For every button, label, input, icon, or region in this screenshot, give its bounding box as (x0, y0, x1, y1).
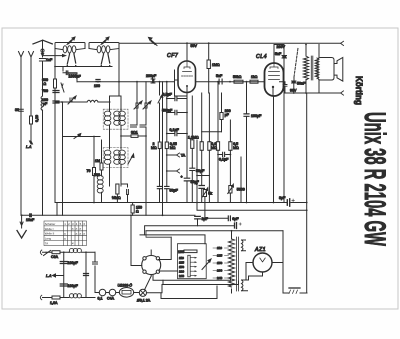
capacitor 100muF c (60, 262, 67, 264)
lever on x159.5 (158, 94, 163, 103)
resistor on x209.4 (208, 142, 211, 151)
switch contacts L2 (103, 53, 104, 54)
line x241 (240, 157, 242, 203)
wire x110 top (110, 95, 121, 97)
svg-text:pF: pF (43, 102, 48, 106)
capacitor 5nF a (219, 79, 222, 84)
svg-text:1kΩ: 1kΩ (251, 75, 258, 79)
tap box (178, 244, 207, 279)
CF7 internals (183, 62, 192, 72)
coil on antenna line (41, 96, 43, 215)
resistor 1M on left line (100, 163, 103, 170)
svg-text:200pF: 200pF (146, 74, 157, 78)
svg-text:100µF: 100µF (251, 114, 262, 118)
transformer primary (229, 239, 235, 287)
svg-text:C3A: C3A (51, 255, 59, 259)
selector wire to pilot lamp (145, 276, 152, 290)
svg-text:CF7: CF7 (167, 53, 179, 59)
CF7 grid side wire (175, 70, 187, 96)
voltage selector plate (142, 256, 161, 275)
resistor 0,15M (165, 142, 168, 149)
svg-text:8µF: 8µF (202, 217, 209, 221)
switch S1 on top bus (149, 37, 158, 45)
capacitor 5nF b (282, 56, 287, 59)
wire x62.5 down (62, 102, 64, 215)
svg-text:Welle II: Welle II (45, 232, 55, 236)
svg-text:×: × (75, 231, 78, 236)
resistor 1/2M (116, 184, 119, 194)
svg-text:50kΩ: 50kΩ (233, 75, 242, 79)
resistor 70 on x94 (93, 137, 95, 203)
switch contacts L1 (69, 53, 70, 54)
line x218 (217, 82, 219, 203)
svg-text:100: 100 (178, 250, 184, 254)
capacitor 0,1muF out (283, 85, 287, 94)
CL4 internals (269, 63, 280, 80)
capacitor pair 50muF (157, 186, 169, 188)
ground arrow (20, 215, 23, 228)
svg-text:MΩ: MΩ (170, 146, 176, 150)
heater rail 1 (145, 226, 234, 235)
svg-text:50V: 50V (191, 44, 198, 48)
resistor 0,5M (229, 142, 232, 151)
taps (225, 248, 229, 278)
resistor 150 (131, 205, 134, 213)
svg-text:½MΩ: ½MΩ (112, 196, 121, 200)
svg-text:1MΩ: 1MΩ (212, 63, 220, 67)
wire band switch (43, 55, 66, 57)
svg-text:240: 240 (179, 274, 184, 278)
svg-text:1000pF: 1000pF (69, 75, 82, 79)
screen line x159.5 (159, 82, 161, 203)
selector switch arrow (202, 259, 211, 270)
coil bottom b (69, 294, 81, 298)
coil 500 (97, 175, 103, 193)
antenna A2 (29, 52, 34, 139)
vertical x95 (94, 252, 96, 292)
electrolytic 8muF (287, 199, 289, 206)
lamp row wire (95, 292, 99, 294)
heater rail 3 (140, 235, 205, 244)
switch dashed lever (294, 48, 298, 77)
wire row y102 (55, 101, 87, 103)
svg-text:1M: 1M (95, 159, 100, 163)
TA connectors (167, 153, 180, 173)
svg-text:0,1µF: 0,1µF (170, 128, 180, 132)
capacitor 0,5muF link (167, 98, 187, 100)
bus y215 ground (21, 214, 195, 216)
selector feed wire left (131, 215, 142, 265)
svg-text:Lang: Lang (45, 237, 52, 241)
svg-text:125: 125 (217, 254, 222, 258)
svg-text:+: + (196, 182, 198, 186)
svg-text:Körting: Körting (353, 76, 364, 105)
capacitor 10nF (127, 190, 129, 195)
capacitor 10nF on ground bus (29, 213, 32, 217)
heater bottom rails (153, 275, 231, 280)
svg-text:×: × (72, 226, 75, 231)
svg-text:6µF: 6µF (232, 217, 239, 221)
wire top bus (119, 42, 341, 44)
coil box L2 (89, 43, 119, 49)
trimmer pair (134, 101, 142, 109)
OT winding (315, 58, 319, 79)
trimmer arrow L1 (67, 37, 75, 45)
wire box sides down (55, 49, 119, 97)
svg-text:U1333-Ö: U1333-Ö (118, 284, 133, 288)
resistor 0,1M (216, 142, 219, 151)
switch S2 (61, 83, 64, 92)
transformer core (237, 237, 239, 291)
speaker cone (334, 58, 343, 82)
svg-text:AZ1: AZ1 (254, 247, 266, 253)
antenna A3 large (33, 40, 52, 44)
fuse 1,6A (52, 296, 60, 299)
svg-text:150: 150 (179, 265, 184, 269)
capacitor 100muF d (60, 284, 67, 286)
capacitor 8muF b (195, 216, 201, 219)
svg-text:10nF: 10nF (26, 218, 35, 222)
capacitor 200pF (151, 79, 155, 83)
link y175.5 (197, 175, 209, 177)
mains plug connectors (40, 250, 42, 300)
line x221.5 resistor 200 (221, 93, 223, 132)
table (44, 221, 87, 246)
vertical x307 long (306, 93, 308, 293)
line x209.4 lower (208, 93, 210, 203)
svg-text:TA: TA (45, 242, 49, 246)
caps at bottom of IF (131, 125, 147, 127)
heater rail 2 (146, 230, 283, 232)
wire y81 mid (196, 81, 265, 83)
speaker field coil (304, 45, 309, 94)
capacitor 50nF (292, 81, 297, 83)
transformer secondary top (242, 240, 246, 251)
svg-text:Schalter: Schalter (45, 222, 56, 226)
svg-text:L.A: L.A (46, 274, 52, 278)
svg-text:5k: 5k (208, 192, 212, 196)
svg-text:200: 200 (217, 269, 222, 273)
transformer secondary bottom (242, 280, 248, 291)
line x246.5 capacitor 100muF (246, 82, 248, 202)
resistor 1M right of CF7 (207, 60, 210, 69)
svg-text:0,1µF: 0,1µF (219, 158, 229, 162)
svg-text:Ω: Ω (136, 210, 139, 214)
svg-text:Unix 38 R 2104 GW: Unix 38 R 2104 GW (358, 112, 391, 246)
capacitor 0,1muF link (167, 133, 187, 135)
svg-text:×: × (79, 231, 82, 236)
svg-text:C4A: C4A (107, 297, 115, 301)
IF transformer T2 (104, 150, 125, 164)
coil box L1 (55, 43, 85, 49)
svg-text:150: 150 (217, 261, 222, 265)
coil bottom a (69, 249, 81, 253)
node L.A arrow (30, 138, 33, 144)
wire x56 down (54, 102, 56, 202)
connector top right (341, 41, 344, 45)
capacitor 500pF link (167, 112, 187, 114)
capacitor 1nF (40, 59, 46, 62)
bus 2 y210 (197, 203, 307, 211)
svg-text:0,1: 0,1 (98, 297, 103, 301)
svg-text:Ø0,1 2A: Ø0,1 2A (137, 299, 151, 303)
line x197 (196, 140, 198, 203)
svg-text:240: 240 (217, 276, 222, 280)
line x166.8 TA feed (166, 82, 168, 203)
ground main (283, 292, 289, 294)
svg-text:220: 220 (179, 269, 184, 273)
shield can T1 (103, 109, 128, 129)
svg-text:1,2MΩ: 1,2MΩ (188, 136, 199, 140)
svg-text:100µF: 100µF (68, 261, 79, 265)
lamp 2 (109, 289, 116, 296)
osc switch arrow (128, 154, 134, 164)
CF7 cathode line (186, 98, 188, 203)
pot 5k (203, 190, 206, 197)
pot 5000 (229, 186, 232, 194)
wire x63 drop (62, 67, 64, 72)
svg-text:+: + (181, 175, 183, 179)
capacitor 100 node row (53, 101, 59, 103)
resistor 50k (234, 80, 243, 83)
wires AZ1 (246, 263, 248, 281)
resistor 1,2M (191, 140, 194, 149)
capacitor 30 on x21 (19, 109, 24, 111)
svg-text:0,5µF: 0,5µF (163, 93, 173, 97)
svg-text:CL4: CL4 (256, 54, 267, 60)
svg-text:70: 70 (87, 169, 91, 173)
svg-text:500: 500 (94, 173, 100, 177)
svg-text:110: 110 (179, 256, 184, 260)
output transformer core (311, 56, 313, 80)
svg-text:5nF: 5nF (216, 74, 223, 78)
mains switch (43, 251, 51, 256)
resistor 1k (250, 80, 258, 83)
tap block labels (179, 256, 184, 278)
rail y132 (202, 131, 222, 133)
svg-text:3Ω1: 3Ω1 (131, 131, 138, 135)
capacitor mid (84, 274, 89, 276)
svg-text:Ω: Ω (44, 82, 47, 86)
screen line x162.5 (162, 82, 164, 216)
svg-text:100: 100 (94, 84, 100, 88)
connector bottom right (341, 91, 344, 95)
resistor 600 (54, 79, 57, 88)
svg-text:50nF: 50nF (297, 82, 306, 86)
shield can T2 (103, 148, 128, 168)
fuse C3A (52, 251, 60, 254)
svg-text:Welle I: Welle I (45, 227, 54, 231)
electrolytic 50muF (184, 178, 189, 181)
resistor 100 in box (184, 250, 197, 253)
wire speaker top drop (318, 45, 320, 58)
svg-text:700: 700 (42, 89, 48, 93)
wire speaker bottom (285, 80, 341, 93)
line x192.3 (191, 96, 193, 202)
svg-text:2: 2 (68, 222, 70, 226)
trimmer cap (68, 96, 76, 104)
capacitor 700pF (53, 91, 59, 93)
bridge capacitor 0,1muF (218, 154, 230, 156)
rectifier AZ1 (253, 253, 272, 272)
tube CF7 (178, 61, 196, 93)
line x230.4 (229, 120, 231, 203)
svg-text:5nF: 5nF (275, 52, 282, 56)
electrolytic 8uF top (235, 223, 237, 229)
resistor on x201.7 (200, 142, 203, 151)
svg-text:6: 6 (84, 222, 86, 226)
capacitor 0,1muF b (190, 168, 195, 170)
svg-text:50µF: 50µF (170, 189, 179, 193)
selector wires right (159, 237, 178, 271)
svg-text:0,20: 0,20 (35, 115, 39, 122)
vertical x86 (85, 252, 87, 297)
svg-text:8µF: 8µF (279, 196, 286, 200)
svg-text:1,6A: 1,6A (50, 301, 58, 305)
wire y81.7 (68, 74, 152, 82)
tube CL4 (265, 63, 284, 96)
wire top right CL4 (274, 45, 284, 56)
svg-text:30: 30 (15, 108, 19, 112)
svg-text:L.A: L.A (26, 145, 32, 149)
svg-text:100µF: 100µF (68, 284, 79, 288)
electrolytic 50muF b (199, 186, 204, 189)
bus y203 (55, 202, 287, 204)
line x201.7 (201, 93, 203, 203)
capacitor 1000pF (66, 71, 68, 75)
antenna A1 (19, 52, 24, 216)
heater rail 4 (146, 231, 171, 237)
svg-text:MΩ: MΩ (151, 146, 157, 150)
pilot lamp (139, 289, 146, 296)
svg-text:TA: TA (181, 154, 186, 158)
lamp 1 (99, 289, 106, 296)
svg-text:MΩ: MΩ (233, 146, 239, 150)
trimmer arrow L2 (101, 37, 109, 45)
capacitor 6muF line (205, 217, 228, 219)
svg-text:×: × (72, 241, 75, 246)
speaker (318, 58, 334, 81)
svg-text:×: × (83, 231, 86, 236)
vertical x283 (282, 231, 284, 293)
tap arrows (190, 258, 195, 276)
svg-text:90V: 90V (290, 89, 297, 93)
coil L3 (87, 100, 110, 102)
svg-text:110: 110 (217, 246, 222, 250)
svg-text:125: 125 (179, 260, 184, 264)
tap labels right (217, 246, 222, 280)
svg-text:MΩ: MΩ (211, 146, 217, 150)
svg-text:1nF: 1nF (46, 58, 53, 62)
vertical x63.75 (63, 252, 65, 297)
switch line y136 (63, 134, 100, 139)
svg-text:×: × (64, 236, 67, 241)
capacitor 100p small (96, 80, 100, 82)
resistor 2M (158, 142, 161, 149)
svg-text:500pF: 500pF (162, 109, 173, 113)
wire lever bus (55, 66, 112, 68)
barretter U1333-8 (119, 288, 133, 298)
svg-text:pF: pF (225, 113, 230, 117)
IF transformer T1 (104, 111, 125, 125)
svg-text:1: 1 (64, 222, 66, 226)
resistor 3k (131, 135, 138, 138)
